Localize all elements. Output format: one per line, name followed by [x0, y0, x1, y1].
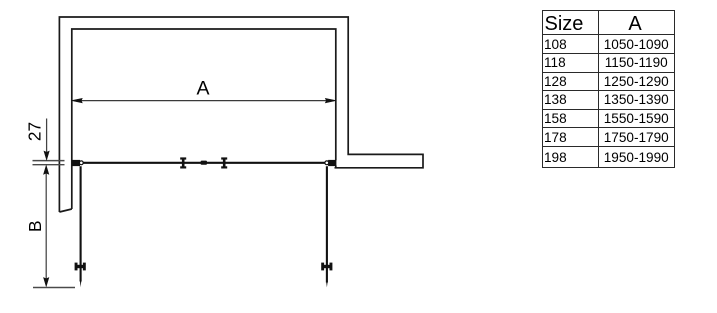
dimension 27 extension line top — [33, 160, 65, 162]
right pivot circle — [325, 161, 329, 165]
svg-text:27: 27 — [24, 122, 44, 141]
dimension B line — [45, 172, 47, 280]
svg-text:A: A — [196, 78, 209, 100]
dimension A line — [74, 100, 334, 102]
right wall bracket — [328, 160, 336, 166]
door centre dash — [201, 161, 207, 165]
right side panel bottom tip — [326, 281, 328, 287]
dimension 27 extension line bottom — [33, 164, 65, 166]
dimension A arrow right — [325, 98, 335, 102]
left pivot circle — [79, 161, 83, 165]
dimension A arrow left — [72, 98, 82, 102]
svg-text:B: B — [25, 220, 45, 232]
wall outer contour (top + left + right walls, plan view) — [59, 17, 423, 212]
right side panel glass — [326, 166, 328, 282]
left side panel glass — [80, 166, 82, 281]
wall segment right inner below bracket — [335, 166, 337, 168]
door glass line — [83, 162, 325, 164]
dimension B arrow up — [44, 166, 49, 175]
dimension 27 line above — [46, 119, 48, 153]
dimension B arrow down — [44, 278, 49, 287]
door clamp right (bow-tie) — [221, 157, 227, 168]
wall inner face left + top + right — [72, 29, 336, 209]
dimension 27 arrow down — [44, 151, 49, 160]
left side panel bottom tip — [80, 280, 82, 287]
dimension B extension line bottom — [33, 287, 75, 289]
wall break cut edge bottom left — [59, 209, 71, 212]
right side panel clamp — [321, 263, 332, 271]
size table — [542, 10, 675, 168]
door clamp left (bow-tie) — [180, 157, 186, 168]
left side panel clamp — [75, 263, 86, 271]
left wall bracket — [72, 160, 80, 166]
